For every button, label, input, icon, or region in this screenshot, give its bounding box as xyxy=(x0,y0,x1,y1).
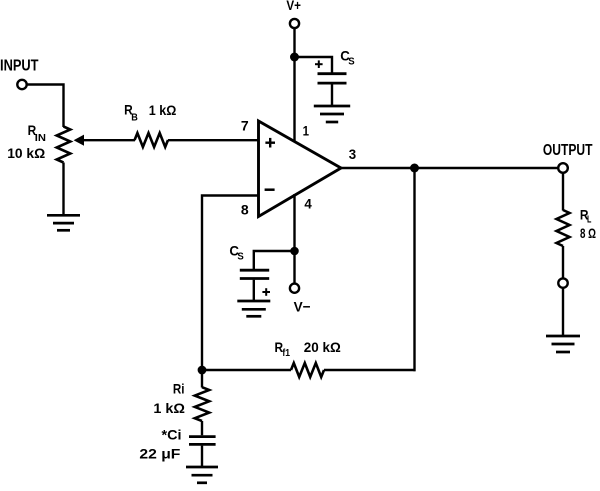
svg-text:INPUT: INPUT xyxy=(0,57,39,74)
wire input terminal to potentiometer top xyxy=(27,85,64,128)
ground below RIN xyxy=(47,215,80,230)
capacitor CS (top) xyxy=(315,47,355,83)
wire junction to bottom CS xyxy=(254,251,295,269)
junction output / feedback xyxy=(410,164,419,173)
junction V+ / CS xyxy=(290,53,299,62)
ground below RL xyxy=(546,336,580,352)
wire OUTPUT to RL xyxy=(562,173,564,211)
node V- terminal xyxy=(290,284,311,315)
svg-text:22 μF: 22 μF xyxy=(139,445,180,461)
svg-text:10 kΩ: 10 kΩ xyxy=(7,145,45,161)
svg-text:1 kΩ: 1 kΩ xyxy=(149,102,177,118)
svg-text:7: 7 xyxy=(241,118,249,134)
resistor Rf1 20 kohm xyxy=(275,339,341,377)
svg-text:20 kΩ: 20 kΩ xyxy=(304,339,341,355)
wire Rf1 right segment xyxy=(324,369,416,371)
svg-text:V+: V+ xyxy=(286,0,301,13)
svg-text:8: 8 xyxy=(241,202,249,218)
resistor RB 1 kohm xyxy=(124,102,176,148)
svg-text:8 Ω: 8 Ω xyxy=(580,225,596,241)
ground below Ci xyxy=(186,467,218,483)
wire feedback node to inverting input pin 8 xyxy=(202,196,259,371)
wire junction to CS top xyxy=(295,57,333,73)
svg-text:*Ci: *Ci xyxy=(162,427,182,443)
svg-text:V−: V− xyxy=(294,299,311,315)
wire feedback node to Ri xyxy=(201,370,203,388)
svg-text:IN: IN xyxy=(35,132,46,144)
wire RL to lower terminal xyxy=(562,246,564,278)
op-amp U1 xyxy=(259,121,342,217)
wire bottom CS to ground xyxy=(253,280,255,301)
svg-text:3: 3 xyxy=(349,146,357,162)
node INPUT terminal xyxy=(0,57,39,89)
svg-text:S: S xyxy=(348,55,354,67)
wire op-amp output to OUTPUT terminal xyxy=(341,167,558,169)
capacitor CS (bottom) xyxy=(229,243,270,296)
svg-text:1: 1 xyxy=(303,123,310,139)
potentiometer RIN 10 kohm xyxy=(7,122,84,163)
svg-text:1 kΩ: 1 kΩ xyxy=(153,400,185,416)
node V+ terminal xyxy=(286,0,301,28)
wire V+ to pin 1 xyxy=(293,28,295,142)
wire Ri to Ci xyxy=(201,421,203,435)
wire pot wiper to RB xyxy=(83,139,135,141)
ground below top CS xyxy=(314,106,350,122)
ground below bottom CS xyxy=(237,301,270,316)
wire Rf1 left segment to feedback node xyxy=(202,369,291,371)
wire CS to ground xyxy=(331,84,333,106)
capacitor Ci 22 uF xyxy=(139,427,215,462)
wire pin 4 to V- xyxy=(293,194,295,284)
svg-text:B: B xyxy=(131,112,138,124)
wire potentiometer bottom to ground xyxy=(62,163,64,216)
node OUTPUT terminal xyxy=(543,142,593,173)
resistor Ri 1 kohm xyxy=(153,381,209,422)
node RL lower terminal xyxy=(558,278,567,287)
svg-text:4: 4 xyxy=(304,196,312,212)
junction feedback node xyxy=(198,366,207,375)
svg-text:S: S xyxy=(237,251,243,263)
wire RB to op-amp noninverting input pin 7 xyxy=(168,139,259,141)
wire Ci to ground xyxy=(201,446,203,467)
resistor RL 8 ohm xyxy=(557,206,597,246)
wire output junction down to Rf1 xyxy=(413,168,415,371)
svg-text:OUTPUT: OUTPUT xyxy=(543,142,593,159)
wire terminal to ground xyxy=(562,288,564,336)
svg-text:L: L xyxy=(587,214,592,226)
svg-text:f1: f1 xyxy=(282,347,290,359)
junction pin4 / CS bottom xyxy=(290,247,299,256)
svg-text:Ri: Ri xyxy=(173,381,185,397)
